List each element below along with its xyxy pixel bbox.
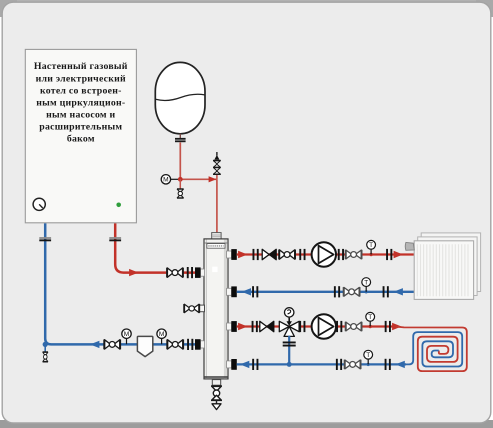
- svg-text:ным насосом и: ным насосом и: [46, 110, 115, 121]
- svg-text:баком: баком: [67, 134, 95, 145]
- svg-text:или электрический: или электрический: [36, 73, 126, 84]
- svg-text:ным циркуляцион-: ным циркуляцион-: [36, 97, 125, 108]
- svg-text:Настенный газовый: Настенный газовый: [34, 61, 128, 72]
- svg-text:котел со встроен-: котел со встроен-: [40, 85, 122, 96]
- svg-text:расширительным: расширительным: [39, 122, 122, 133]
